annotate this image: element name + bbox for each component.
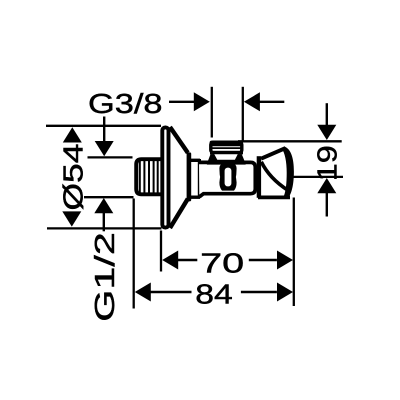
inlet tube top edge [189,159,201,162]
main valve body [199,162,255,197]
svg-text:G3/8: G3/8 [88,88,163,119]
19 dimension up arrow with leader [317,178,336,217]
handle bottom edge [258,195,290,199]
G1/2 dimension down arrow with leader [95,117,114,157]
svg-text:70: 70 [200,247,244,278]
70 dimension left arrow [162,251,197,270]
extension line bottom of G1/2 thread [84,196,134,198]
svg-text:84: 84 [195,279,233,310]
extension line left end of thread (84) [133,199,135,309]
84 dimension left arrow [135,283,192,302]
tube/body junction [198,159,201,198]
valve body: G1/2 threaded connector [136,159,160,194]
extension line top of G1/2 thread [88,156,133,158]
extension line top of flange (Ø54) [46,125,161,127]
extension line right end of handle (70/84) [293,198,295,307]
handle front rim arc [261,162,288,191]
handle ferrule [257,156,261,198]
84 dimension right arrow [241,283,293,302]
svg-text:Ø54: Ø54 [58,144,89,211]
Ø54 dimension up arrow [63,127,82,142]
thread hatch lines [140,161,158,193]
bonnet keyhole [219,164,236,191]
dimension line G3/8 left arrow [169,92,210,111]
outlet neck [207,154,246,164]
G3/8 outlet cap [210,141,243,155]
extension line right of G3/8 connector [242,87,244,142]
extension line left bound of 70 (wall face) [160,231,162,272]
flange cone bottom slope [170,199,188,228]
70 dimension right arrow [249,251,293,270]
svg-text:G1/2: G1/2 [89,232,120,322]
extension line bottom of flange (Ø54) [47,227,162,229]
stop ring [187,152,192,201]
inlet tube bottom edge [188,195,200,198]
wall flange disc [162,127,168,227]
handle skirt [282,147,294,199]
Ø54 dimension down arrow [62,211,81,226]
dimension line G3/8 right arrow [244,92,284,111]
extension line top of handle (19) [238,140,342,142]
G1/2 dimension up arrow with leader [94,198,113,231]
extension line valve axis (19) [291,176,344,178]
19 dimension down arrow with leader [317,103,336,140]
flange cone top slope [170,127,188,153]
extension line left of G3/8 connector [211,87,213,138]
handle top slope [261,148,286,159]
